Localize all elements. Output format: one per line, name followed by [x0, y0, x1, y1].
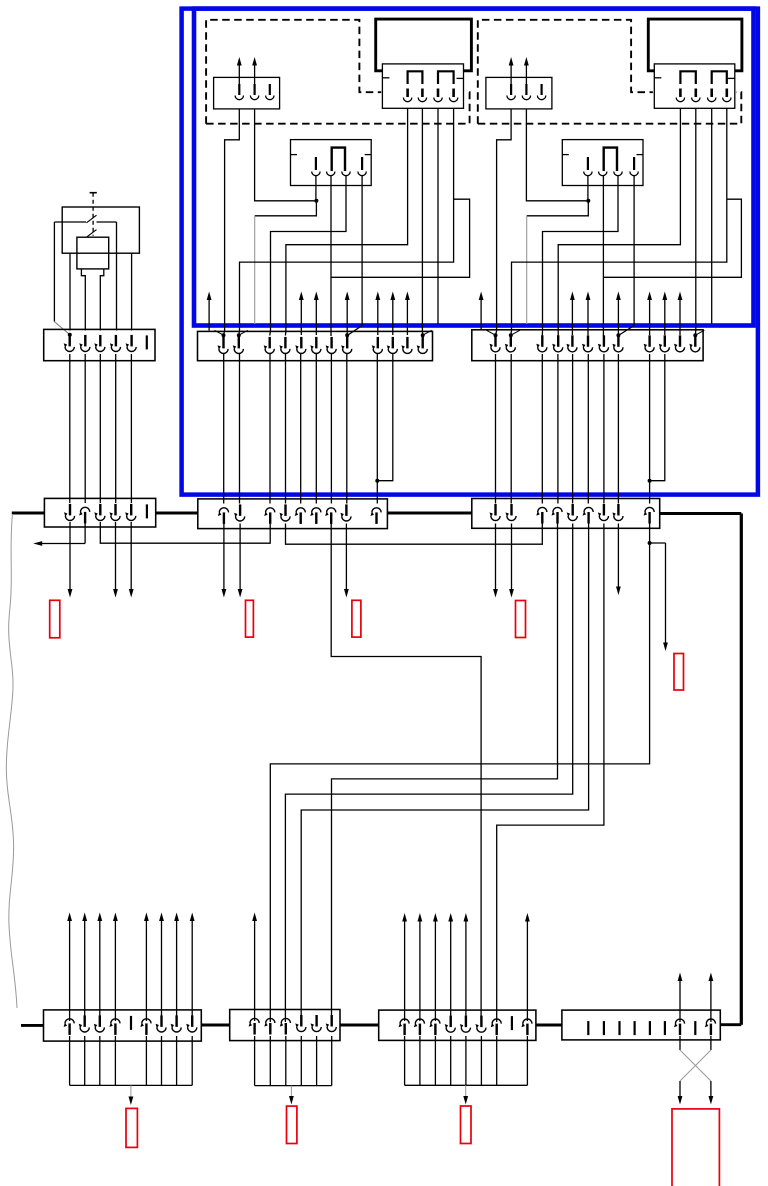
pins of X9 (bottom 3) [400, 1019, 409, 1024]
wire relay K1 pin4 to X3 pin2 [239, 108, 454, 335]
ignition switch actuator cap [90, 192, 97, 194]
sensor connector right pins [510, 84, 512, 95]
sensor connector left [214, 77, 280, 109]
up arrow from right sensor pin1 [510, 65, 512, 85]
off-page arrow above X5 x=649.6 [649, 299, 651, 335]
down arrow below X4 pin8 [345, 524, 347, 591]
pins of X8 (bottom 2) [250, 1018, 259, 1023]
bus right riser [740, 514, 743, 1025]
wire relay K2 pin3 stub [711, 108, 713, 324]
connector strip X1 (ignition, upper) [44, 329, 155, 360]
module U2 right bridge [604, 148, 617, 171]
wire sensorL pin2 zigzag [255, 109, 317, 216]
wire sensorL stub gray [254, 216, 256, 324]
down arrow below X2 pin1 [69, 522, 71, 590]
bus segment X8 to X9 [340, 1024, 379, 1027]
off-page arrow above X3 x=377.8 [377, 299, 379, 335]
relay K2 bridge 1 [680, 71, 695, 84]
blue outer harness frame [182, 9, 758, 495]
ignition switch pedestal right [100, 269, 104, 331]
pins of X6 (right module, lower) [494, 504, 496, 516]
wire relay K1 pin1 to X3 pin4 [285, 108, 407, 335]
off-page arrow left of X5 [480, 299, 482, 331]
bundle wire 3 (X6.5 to X8.3) [285, 524, 572, 1023]
down arrow below X6 pin8 [617, 524, 619, 588]
module U1 left box [291, 140, 372, 186]
down arrow below X2 pin4 [115, 522, 117, 590]
ignition switch contact blade 2 [87, 230, 97, 238]
module U2 right box [562, 140, 643, 186]
wire X4 pin4 to X6 pin3 [286, 524, 543, 545]
module U1 left notches [291, 154, 298, 156]
module U1 left pins [315, 157, 317, 170]
up arrow above X7 x=84.7 [84, 920, 86, 1021]
wire X5-X6 at x=557.9 [557, 354, 559, 504]
wire X5-X6 at x=542.3 [541, 354, 543, 504]
wire U1 pin3 to X3 pin3 [270, 176, 346, 336]
wire X1-X2 at x=100.3 [99, 354, 101, 503]
bus segment X6 to right riser [660, 512, 742, 515]
X9 fan-out lead gray [465, 1085, 467, 1096]
connector strip X5 (right module, upper) [472, 330, 703, 361]
wire: switch output drop [116, 222, 118, 331]
wire X5-X6 at x=603.9 [603, 354, 605, 504]
down arrow below X6 pin1 [495, 524, 497, 591]
up arrow above X8 pin1 [254, 920, 256, 1021]
wire X1-X2 at x=85.2 [84, 354, 86, 503]
down arrow below X4 pin1 [223, 524, 225, 591]
dashed enclosure left [206, 20, 470, 124]
blue inner module frame [194, 9, 754, 326]
relay K1 connector [382, 64, 463, 108]
wire sensorR pin1 to X5 pin1 [496, 109, 512, 336]
relay K2 connector notches [654, 77, 661, 79]
relay K2 pins [679, 89, 682, 98]
wire relay K1 pin3 stub [437, 108, 439, 324]
up arrow above X9 x=419.9 [419, 921, 421, 1022]
bus segment riser to X10 [720, 1023, 741, 1026]
torn-sheet wavy edge [6, 514, 17, 1008]
wire U1 pin1 drop [315, 176, 317, 201]
wire X5-X6 at x=495.5 [495, 354, 497, 504]
bundle wire 5 (X6.7 to X9.7) [497, 524, 604, 1023]
X9 fan-out bottom rail [405, 1084, 528, 1086]
bus segment left edge to X2 [12, 512, 45, 515]
relay K1 pins [406, 89, 409, 98]
sensor connector right [486, 77, 552, 109]
connector strip X4 (left module, lower) [198, 499, 388, 529]
wire X3-X4 at x=346.8 [346, 354, 348, 504]
module U2 right pins [587, 157, 589, 170]
pins of X3 (left module, upper) [222, 337, 224, 349]
ignition switch outer box [62, 207, 139, 253]
dashed enclosure right [478, 20, 742, 124]
off-page arrow above X3 x=347.2 [346, 299, 348, 335]
junction dot X6 pin9 merge [648, 479, 652, 483]
up arrow above X7 x=99.8 [99, 920, 101, 1021]
pins of X4 (left module, lower) [219, 508, 228, 513]
red label under X4 pin8 [352, 600, 361, 637]
sensor connector left pins [238, 84, 240, 95]
wire X5-X6 at x=572.6 [572, 354, 574, 504]
wire X4 pin7 long route [331, 524, 481, 1023]
wire X3-X4 at x=285.5 [285, 354, 287, 504]
wire U1 pin2 branch to relay K1 pin4 [331, 199, 470, 277]
red label under X4 pins1-2 [246, 600, 254, 637]
wire X1-X2 at x=69.8 [69, 354, 71, 503]
wire X1-X2 at x=115.7 [115, 354, 117, 503]
wire X3-X4 at x=270.0 [269, 354, 271, 504]
wire U2 pin3 to X5 pin3 [542, 176, 618, 336]
wire U1 pin2 to X3 pin7 [330, 176, 332, 337]
down arrow below X2 pin5 [130, 522, 132, 590]
up arrow above X10 pin9 [710, 980, 712, 1022]
connector strip X8 (bottom 2) [230, 1010, 340, 1041]
X8 fan-out verticals [254, 1036, 256, 1086]
down arrow to ECU right [710, 1081, 712, 1097]
wire: feed drop left of box [53, 222, 55, 322]
red label under X6 pins1-2 [516, 601, 526, 638]
up arrow above X7 x=146.4 [145, 920, 147, 1021]
red label below X9 [461, 1106, 472, 1144]
red label under X2 arrows [50, 600, 60, 638]
wire U2 pin1 drop [587, 176, 589, 201]
off-page arrow left of X3 [208, 299, 210, 331]
bus segment X4 to X6 [387, 512, 471, 515]
X10 pin7 tail [679, 1036, 681, 1050]
up arrow above X9 x=450.7 [450, 921, 452, 1022]
red label below X8 [287, 1106, 297, 1143]
splice diagonals X3 [215, 330, 224, 335]
wire U2 pin2 to X5 pin7 [602, 176, 604, 337]
connector strip X2 (ignition, lower) [44, 498, 155, 527]
X7 lead arrowhead [129, 1097, 134, 1106]
wire relay K2 pin2 to X5 pin12 [694, 109, 697, 336]
down arrow to ECU left [679, 1081, 681, 1097]
up arrow above X9 x=527.4 [526, 921, 528, 1022]
up arrow from left sensor pin1 [238, 65, 240, 85]
wire sensorR pin2 zigzag [526, 109, 588, 216]
X9 fan-out verticals [404, 1036, 406, 1085]
crossover wire B [680, 1050, 711, 1081]
X7 fan-out lead gray [130, 1085, 132, 1097]
pins of X7 (bottom 1) [65, 1019, 74, 1024]
junction dots X5 [494, 333, 498, 337]
wire X3-X4 at x=239.5 [239, 354, 241, 504]
ignition switch inner box [77, 237, 109, 269]
connector strip X7 (bottom 1) [44, 1010, 202, 1041]
X8 fan-out lead gray [290, 1086, 292, 1096]
wire X3 pin10 merge [377, 354, 393, 481]
bus segment X2 to X4 [156, 512, 198, 515]
X10 pin9 tail [710, 1036, 712, 1050]
X8 lead arrowhead [289, 1096, 294, 1105]
up arrow above X9 x=465.9 [465, 921, 467, 1022]
connector strip X3 (left module, upper) [198, 331, 433, 360]
ignition switch pedestal left [81, 269, 85, 331]
up arrow above X9 x=435.4 [434, 921, 436, 1022]
relay K1 bridge 2 [438, 71, 454, 84]
off-page arrow above X5 x=618.4 [617, 299, 619, 335]
off-page arrow above X3 x=316.3 [315, 299, 317, 335]
module U2 right notches [562, 154, 569, 156]
wire X5-X6 at x=588.3 [587, 354, 589, 504]
pins of X5 (right module, upper) [494, 335, 496, 347]
wire X3 pin9 to X4 pin9 [376, 354, 378, 504]
wire U2 pin2 branch to relay K2 pin4 [603, 199, 741, 277]
bundle wire 4 (X6.6 to X8.4) [301, 524, 588, 1023]
wire: switch feed horizontal [54, 221, 86, 223]
X7 fan-out bottom rail [70, 1084, 193, 1086]
pins of X2 (ignition, lower) [69, 504, 71, 516]
up arrow from right sensor pin2 [525, 65, 527, 85]
wire X3-X4 at x=300.7 [300, 354, 302, 504]
up arrow above X7 x=161.5 [161, 920, 163, 1021]
off-page arrow above X3 x=407.4 [406, 299, 408, 335]
up arrow above X10 pin7 [679, 980, 681, 1022]
pins of X10 (bottom 4) [587, 1021, 589, 1035]
junction dot U1 pin1 node [314, 199, 318, 203]
junction dots X3 left [222, 333, 226, 337]
red label below X7 [126, 1108, 137, 1147]
connector strip X6 (right module, lower) [472, 499, 660, 529]
wire relay K2 pin4 to X5 pin2 [511, 108, 727, 335]
relay K1 bridge 1 [408, 71, 423, 84]
wire X1-X2 at x=131.4 [130, 354, 132, 503]
bus segment X9 to X10 [536, 1024, 562, 1027]
wire U1 pin4 diagonal to X3 pin8 [347, 176, 362, 336]
wire: box bottom drop A [69, 253, 71, 330]
wire relay K1 pin2 to X3 pin12 [421, 108, 423, 335]
wire X5-X6 at x=511.2 [510, 354, 512, 504]
splice diagonals X5 [487, 330, 496, 335]
up arrow above X9 x=404.6 [404, 921, 406, 1022]
off-page arrow above X3 x=392.8 [392, 299, 394, 335]
connector strip X10 (bottom 4) [562, 1010, 720, 1040]
wire X3-X4 at x=316.3 [315, 354, 317, 504]
bus segment X7 to X8 [201, 1024, 229, 1027]
wire sensorR stub gray [526, 216, 528, 324]
wire X3-X4 at x=331.4 [330, 354, 332, 504]
up arrow above X7 x=69.6 [69, 920, 71, 1021]
up arrow above X7 x=115.4 [114, 920, 116, 1021]
bus segment torn edge to X7 [21, 1024, 44, 1027]
junction dot U2 pin1 node [586, 199, 590, 203]
X8 fan-out bottom rail [255, 1085, 332, 1087]
relay K1 body [376, 19, 472, 71]
up arrow above X7 x=176.6 [176, 920, 178, 1021]
module U1 left bridge [332, 148, 345, 171]
wire: box bottom drop B [131, 253, 133, 330]
wire X3-X4 at x=223.7 [223, 354, 225, 504]
ignition switch contact blade 1 [87, 215, 97, 223]
wire X2 pin3 to X4 pin3 [100, 522, 270, 543]
down arrow X6 pin9 branch [665, 543, 667, 644]
down arrow below X6 pin2 [511, 524, 513, 591]
X9 lead arrowhead [463, 1096, 468, 1105]
wire X6 pin9 junction branch [650, 524, 666, 544]
crossover wire A [680, 1050, 711, 1081]
X7 fan-out verticals [69, 1036, 71, 1085]
off-page arrow above X5 x=572.4 [571, 299, 573, 335]
bundle wire 2 (X6.4 to X8.6) [332, 524, 558, 1023]
relay K2 bridge 2 [712, 71, 727, 84]
wire: feed diagonal into pin1 [54, 322, 69, 334]
connector strip X9 (bottom 3) [379, 1010, 536, 1040]
off-page arrow above X5 x=664.8 [664, 299, 666, 335]
wire X5 pin9 to X6 pin9 [649, 354, 651, 504]
red label under X6 pin9 branch [674, 654, 684, 691]
up arrow from left sensor pin2 [254, 65, 256, 85]
down arrow below X4 pin2 [239, 524, 241, 591]
off-page arrow above X3 x=301.3 [300, 299, 302, 335]
bundle wire 1 (X6.9 to X8.2) [270, 543, 649, 1022]
junction dot ignition pin1 [68, 333, 72, 337]
wire X2 pin2 to left off-page arrow [84, 522, 86, 544]
ignition switch actuator dashed line [92, 193, 94, 236]
wire X5 pin10 merge [650, 354, 665, 481]
off-page arrow above X5 x=588.0 [587, 299, 589, 335]
wire relay K2 pin1 to X5 pin4 [558, 108, 680, 335]
junction dot X4 pin9 merge [375, 479, 379, 483]
pins of X1 (ignition, upper) [68, 335, 70, 347]
relay K1 connector notches [382, 77, 389, 79]
red ECU box [672, 1109, 719, 1186]
off-page arrow above X5 x=680.0 [679, 299, 681, 335]
wire U2 pin4 diagonal to X5 pin8 [618, 176, 634, 336]
relay K2 connector [654, 64, 735, 108]
wire sensorL pin1 to X3 pin1 [224, 109, 240, 336]
wire X5-X6 at x=618.4 [617, 354, 619, 504]
up arrow above X7 x=192.2 [191, 920, 193, 1021]
relay K2 body [648, 19, 742, 71]
